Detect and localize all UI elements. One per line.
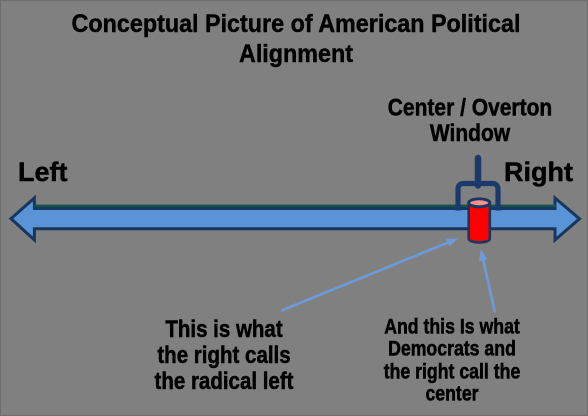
caption: this is what the right calls the radical left	[124, 317, 324, 394]
title	[22, 9, 571, 69]
bracket U	[458, 184, 498, 211]
label Center / Overton Window	[370, 96, 570, 147]
label Left	[18, 157, 68, 188]
cylinder body	[469, 203, 490, 243]
cylinder top ellipse	[469, 199, 490, 207]
label Right	[504, 157, 573, 188]
caption: and this is what Democrats and the right call the center	[352, 315, 552, 404]
thin arrow 2 line	[483, 260, 495, 312]
thin arrow 2 head	[479, 250, 487, 262]
bracket stem	[475, 158, 482, 186]
big double-headed arrow	[11, 198, 580, 240]
thin arrow 1 line	[282, 243, 448, 311]
thin arrow 1 head	[446, 239, 458, 247]
teal line along top of shaft	[34, 205, 556, 207]
